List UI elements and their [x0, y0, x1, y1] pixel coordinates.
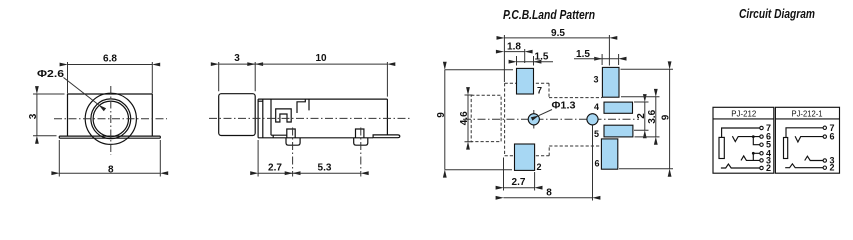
svg-text:6.8: 6.8	[103, 54, 117, 65]
svg-text:Circuit Diagram: Circuit Diagram	[739, 7, 815, 21]
svg-text:2: 2	[766, 163, 771, 173]
svg-text:6: 6	[594, 159, 599, 169]
svg-text:2: 2	[830, 163, 835, 173]
svg-text:8: 8	[546, 188, 552, 199]
svg-text:PJ-212: PJ-212	[731, 108, 756, 118]
svg-text:Φ1.3: Φ1.3	[552, 101, 576, 112]
svg-text:Φ2.6: Φ2.6	[37, 69, 65, 80]
svg-text:10: 10	[315, 53, 327, 64]
svg-text:2.7: 2.7	[512, 177, 526, 188]
svg-text:9: 9	[661, 114, 672, 120]
svg-text:7: 7	[537, 86, 542, 96]
svg-text:9.5: 9.5	[551, 28, 565, 39]
svg-text:6: 6	[830, 132, 835, 142]
svg-text:3: 3	[28, 113, 39, 119]
svg-text:3: 3	[593, 75, 598, 85]
svg-text:3: 3	[234, 53, 240, 64]
svg-text:PJ-212-1: PJ-212-1	[792, 108, 823, 118]
svg-text:4: 4	[594, 102, 599, 112]
svg-text:P.C.B.Land Pattern: P.C.B.Land Pattern	[503, 8, 595, 22]
svg-text:2: 2	[636, 113, 647, 119]
svg-text:8: 8	[108, 165, 114, 176]
svg-text:2: 2	[536, 162, 541, 172]
svg-text:9: 9	[436, 112, 447, 118]
svg-text:4.6: 4.6	[459, 111, 470, 125]
svg-text:5.3: 5.3	[318, 163, 332, 174]
svg-text:1.5: 1.5	[535, 52, 549, 63]
svg-text:2.7: 2.7	[268, 163, 282, 174]
svg-text:1.5: 1.5	[576, 49, 590, 60]
svg-text:5: 5	[594, 129, 599, 139]
svg-text:3.6: 3.6	[647, 109, 658, 123]
svg-text:1.8: 1.8	[507, 42, 521, 53]
